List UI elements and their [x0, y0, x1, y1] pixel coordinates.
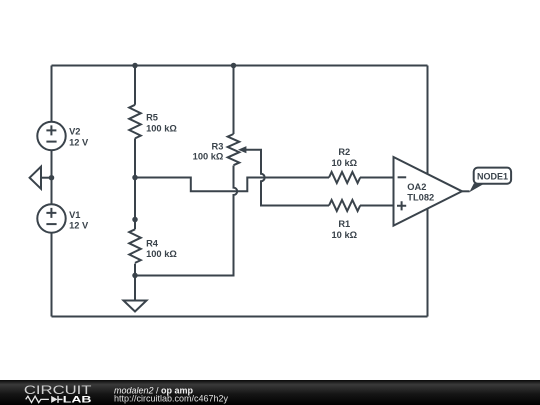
wire V2 top lead [51, 66, 53, 122]
svg-text:100 kΩ: 100 kΩ [193, 151, 224, 161]
junction dot R4 top [132, 217, 138, 223]
V1 minus sign [46, 223, 56, 225]
junction dot top rail R3 [231, 63, 237, 69]
junction dot R4 bottom [132, 273, 138, 279]
junction dot top rail R5 [132, 63, 138, 69]
wire minus-input staircase [135, 178, 329, 192]
svg-text:OA2: OA2 [407, 182, 426, 192]
svg-text:TL082: TL082 [407, 192, 434, 202]
voltage source V2 circle [37, 122, 65, 150]
potentiometer R3 [228, 134, 240, 165]
junction dot port node [49, 175, 55, 181]
logo diode bar [58, 396, 63, 403]
op-amp minus marker [398, 176, 407, 178]
resistor R1 [329, 200, 360, 211]
wire bottom rail [52, 316, 428, 318]
wire R1 to op-amp [360, 205, 394, 207]
node flag NODE1 box [474, 168, 511, 184]
resistor R2 [329, 172, 360, 183]
port triangle [30, 167, 41, 189]
wire V1 bottom lead [51, 233, 53, 317]
resistor R5 [129, 105, 141, 139]
voltage source V1 circle [37, 204, 65, 232]
V2 plus sign [46, 125, 56, 135]
svg-text:R5: R5 [146, 113, 158, 123]
logo resistor squiggle [26, 396, 49, 402]
svg-text:10 kΩ: 10 kΩ [332, 158, 358, 168]
wire op-amp output stub [462, 190, 470, 192]
op-amp U1 triangle [394, 157, 463, 226]
svg-text:10 kΩ: 10 kΩ [332, 230, 358, 240]
wire R5 top lead [134, 66, 136, 105]
svg-text:V1: V1 [69, 210, 80, 220]
wire port stub [41, 177, 52, 179]
wire op-amp top power [427, 66, 429, 177]
potentiometer wiper arrow [238, 146, 246, 153]
V2 minus sign [46, 141, 56, 143]
footer bar [0, 380, 540, 405]
wire V2-V1 middle [51, 150, 53, 204]
svg-text:R1: R1 [338, 219, 350, 229]
svg-text:12 V: 12 V [69, 138, 89, 148]
svg-text:12 V: 12 V [69, 221, 89, 231]
svg-text:R4: R4 [146, 238, 159, 248]
svg-text:LAB: LAB [63, 394, 92, 405]
ground [124, 301, 147, 312]
wire R2 to op-amp [360, 177, 394, 179]
V1 plus sign [46, 208, 56, 218]
logo diode [51, 396, 57, 403]
wire R3 top lead [233, 66, 235, 135]
svg-text:NODE1: NODE1 [477, 171, 508, 181]
svg-text:100 kΩ: 100 kΩ [146, 124, 177, 134]
svg-text:R2: R2 [338, 147, 350, 157]
wire op-amp bottom power [427, 207, 429, 317]
node flag pointer [469, 184, 484, 193]
wire top rail [52, 65, 428, 67]
svg-text:100 kΩ: 100 kΩ [146, 249, 177, 259]
svg-text:http://circuitlab.com/c467h2y: http://circuitlab.com/c467h2y [114, 393, 229, 403]
junction dot R5 bottom [132, 175, 138, 181]
wire R5-R4 link [134, 138, 136, 229]
op-amp plus marker [397, 201, 406, 210]
wire R3 bottom lead with hop [135, 166, 237, 276]
svg-text:R3: R3 [212, 141, 224, 151]
wire wiper to plus-input with hop [246, 150, 330, 206]
wire R4 to ground [134, 264, 136, 301]
resistor R4 [129, 229, 141, 263]
svg-text:V2: V2 [69, 127, 80, 137]
